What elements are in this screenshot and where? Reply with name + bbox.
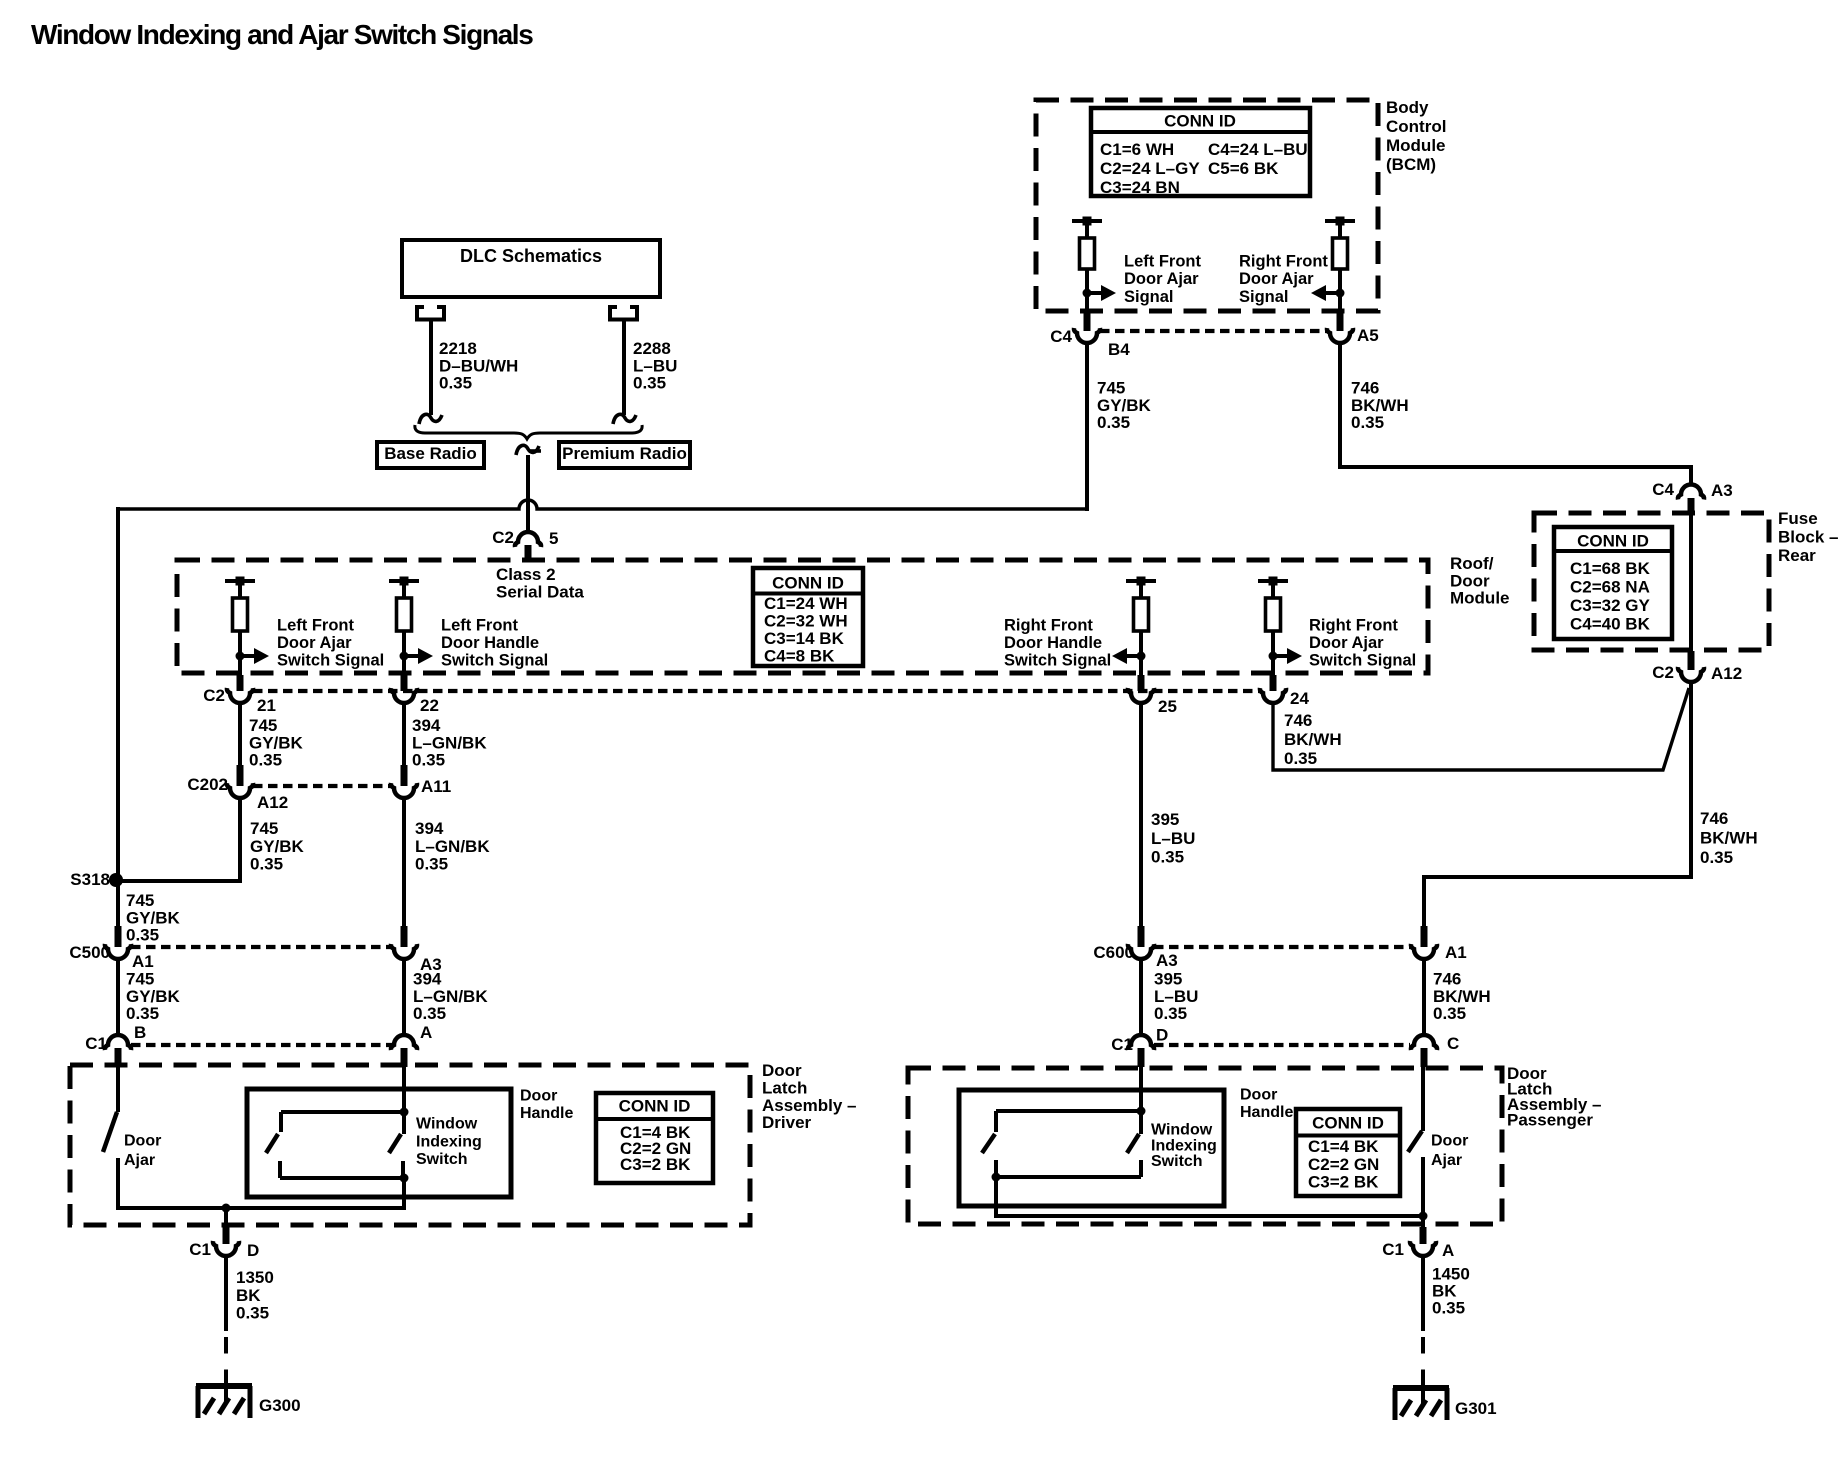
- junction dot bottom (driver): [400, 1174, 409, 1183]
- svg-text:24: 24: [1290, 689, 1309, 708]
- CONN ID table (passenger latch): [1296, 1109, 1400, 1196]
- pin stub A12 fuse: [1688, 651, 1695, 670]
- Premium Radio box: [559, 442, 690, 468]
- connector cup C1 pin D (passenger): [1128, 1035, 1154, 1050]
- connector bracket right under DLC: [608, 305, 639, 320]
- pin stub A3 (C500 line): [401, 926, 408, 947]
- wire 745 GY/BK B4 down to main horizontal: [1085, 343, 1089, 511]
- DLC Schematics box: [402, 240, 660, 297]
- svg-text:C2=2 GN: C2=2 GN: [1308, 1155, 1379, 1174]
- svg-text:D: D: [1156, 1026, 1168, 1045]
- svg-text:C4=8 BK: C4=8 BK: [764, 646, 835, 665]
- window indexing switch (driver): [266, 1067, 409, 1210]
- door ajar switch upper terminal (passenger): [1421, 1067, 1425, 1131]
- pin stub A5: [1337, 311, 1344, 331]
- switch output drop (passenger): [994, 1177, 998, 1216]
- svg-text:Base Radio: Base Radio: [384, 444, 477, 463]
- window indexing switch (passenger): [982, 1067, 1146, 1216]
- connector C202 dashed line: [253, 784, 392, 788]
- right front door ajar switch signal branch (resistor): [1258, 577, 1302, 676]
- latch bottom wire (driver): [116, 1206, 406, 1210]
- svg-text:D: D: [247, 1241, 259, 1260]
- pin stub D: [1138, 1048, 1145, 1067]
- connector cup C1 pin D (bottom driver): [213, 1241, 239, 1256]
- pin stub 25: [1138, 675, 1145, 691]
- svg-text:CONN ID: CONN ID: [1312, 1114, 1384, 1133]
- connector cup C4 pin B4: [1074, 328, 1100, 343]
- right pole lower stub (driver): [401, 1161, 405, 1178]
- door ajar switch (driver): [103, 1067, 118, 1210]
- svg-text:A3: A3: [1711, 481, 1733, 500]
- pin stub B: [115, 1048, 122, 1067]
- connector cup C202 pin A12: [227, 783, 253, 798]
- wire 745 GY/BK A1 to B: [116, 959, 120, 1036]
- connector cup pin 24: [1260, 688, 1286, 703]
- connector C2 pin 5 (roof/door module): [515, 532, 541, 547]
- pin stub D (bottom driver): [223, 1227, 230, 1244]
- splice S318 junction: [109, 873, 123, 887]
- left front door ajar signal branch (BCM resistor): [1072, 217, 1116, 313]
- svg-text:C202: C202: [187, 775, 228, 794]
- connector cup C500 pin A1: [105, 944, 131, 959]
- wire 394 L-GN/BK A11 to A3: [402, 798, 406, 928]
- pin stub C2-5: [525, 545, 532, 561]
- svg-text:C2=68 NA: C2=68 NA: [1570, 578, 1650, 597]
- svg-text:A5: A5: [1357, 326, 1379, 345]
- door ajar switch blade (driver): [103, 1112, 117, 1152]
- pin stub A12 (C202): [237, 765, 244, 786]
- svg-text:C3=32 GY: C3=32 GY: [1570, 596, 1651, 615]
- left pole blade (passenger): [982, 1134, 995, 1153]
- wire 395 L-BU A3 to D: [1139, 959, 1143, 1036]
- svg-text:B: B: [134, 1023, 146, 1042]
- wire through fuse block: [1689, 513, 1693, 653]
- svg-text:C2: C2: [492, 528, 514, 547]
- connector cup C4 pin A5: [1327, 328, 1353, 343]
- svg-text:C600: C600: [1093, 943, 1134, 962]
- pin stub A3 fuse: [1688, 498, 1695, 514]
- wire 1450 BK: [1421, 1256, 1425, 1331]
- svg-text:A1: A1: [1445, 943, 1467, 962]
- connector C500 dashed line: [131, 945, 392, 949]
- right front door ajar signal branch (BCM resistor): [1311, 217, 1355, 313]
- wire 746 BK/WH A1 to C: [1422, 959, 1426, 1036]
- connector cup pin 22: [391, 688, 417, 703]
- CONN ID table (BCM): [1091, 108, 1310, 197]
- connector cup C2 pin A12 (fuse block): [1678, 667, 1704, 682]
- wire S318 branch horizontal: [116, 879, 242, 883]
- door ajar switch upper terminal (driver): [116, 1067, 120, 1112]
- pin stub A1 (C500): [115, 926, 122, 947]
- switch top bar (passenger): [996, 1109, 1141, 1113]
- junction dot latch output (driver): [222, 1204, 231, 1213]
- Roof/Door Module dashed box: [177, 560, 1428, 673]
- Door Latch Assembly - Driver dashed box: [70, 1065, 750, 1225]
- svg-text:5: 5: [549, 529, 558, 548]
- Door Latch Assembly - Passenger dashed box: [908, 1068, 1502, 1224]
- pin stub 22: [401, 675, 408, 691]
- svg-text:C3=2 BK: C3=2 BK: [1308, 1172, 1379, 1191]
- svg-text:C4=40 BK: C4=40 BK: [1570, 614, 1651, 633]
- ground G300: [196, 1386, 301, 1418]
- pin stub 21: [237, 675, 244, 691]
- pin stub C: [1421, 1048, 1428, 1067]
- pin stub A1 (passenger): [1421, 926, 1428, 947]
- brace joining 2218/2288 to Class 2 serial data: [415, 425, 642, 439]
- connector cup C600 pin A3: [1128, 944, 1154, 959]
- junction dot bottom (passenger): [992, 1173, 1001, 1182]
- svg-text:G300: G300: [259, 1396, 301, 1415]
- svg-text:C1: C1: [1111, 1035, 1133, 1054]
- output wire to C1-A (passenger): [1421, 1216, 1425, 1229]
- left pole lower stub (driver): [278, 1161, 282, 1178]
- svg-text:A1: A1: [132, 952, 154, 971]
- connector cup C1 pin C (passenger): [1411, 1035, 1437, 1050]
- svg-text:B4: B4: [1108, 340, 1130, 359]
- connector C1 dashed line (driver latch): [131, 1043, 392, 1047]
- svg-text:C2: C2: [1652, 663, 1674, 682]
- pin stub A (bottom passenger): [1420, 1227, 1427, 1244]
- pin stub A11 (C202): [401, 765, 408, 786]
- pin stub A: [401, 1048, 408, 1067]
- right pole lower stub (passenger): [1139, 1160, 1143, 1177]
- wire 395 L-BU pin 25 to C600-A3: [1139, 703, 1143, 928]
- connector C1 dashed line (passenger latch): [1154, 1043, 1410, 1047]
- svg-text:C4: C4: [1050, 327, 1072, 346]
- switch output drop (driver): [402, 1178, 406, 1210]
- svg-text:CONN ID: CONN ID: [1164, 112, 1236, 131]
- switch feed wire (driver): [402, 1067, 406, 1134]
- svg-text:25: 25: [1158, 697, 1177, 716]
- svg-text:C500: C500: [69, 943, 110, 962]
- connector cup pin 21: [227, 688, 253, 703]
- svg-text:C3=2 BK: C3=2 BK: [620, 1155, 691, 1174]
- wire 745 GY/BK pin21 to C202-A12: [238, 703, 242, 766]
- svg-text:DLC Schematics: DLC Schematics: [460, 246, 602, 266]
- svg-text:A: A: [1442, 1241, 1454, 1260]
- svg-text:A: A: [420, 1023, 432, 1042]
- svg-text:G301: G301: [1455, 1399, 1497, 1418]
- door ajar switch (passenger): [1408, 1067, 1423, 1218]
- svg-text:A11: A11: [421, 777, 451, 796]
- switch feed wire (passenger): [1139, 1067, 1143, 1134]
- latch bottom wire (passenger): [994, 1214, 1425, 1218]
- connector cup C1 pin A (bottom passenger): [1410, 1241, 1436, 1256]
- connector C2 dashed line (roof/door module bottom): [253, 689, 1260, 693]
- right pole blade (passenger): [1127, 1134, 1139, 1153]
- svg-text:C: C: [1447, 1034, 1459, 1053]
- svg-text:21: 21: [257, 696, 276, 715]
- svg-text:C1: C1: [85, 1034, 107, 1053]
- door ajar switch lower terminal (passenger): [1421, 1157, 1425, 1218]
- wire 745 GY/BK left column vertical: [116, 507, 120, 928]
- connector cup C1 pin A (driver latch): [391, 1035, 417, 1050]
- wire 2288 L-BU vertical: [622, 321, 626, 415]
- svg-text:C2=32 WH: C2=32 WH: [764, 612, 848, 631]
- connector bracket left under DLC: [415, 305, 446, 320]
- wire 394 L-GN/BK A3 to A: [402, 959, 406, 1036]
- dashed wire to G301: [1421, 1337, 1425, 1388]
- dashed wire to G300: [224, 1337, 228, 1386]
- svg-text:A12: A12: [1711, 664, 1742, 683]
- Fuse Block - Rear dashed box: [1534, 513, 1769, 650]
- svg-text:S318: S318: [70, 870, 110, 889]
- ground G301: [1393, 1388, 1497, 1420]
- Base Radio box: [377, 442, 484, 468]
- left pole upper stub (passenger): [994, 1111, 998, 1132]
- svg-text:C4: C4: [1652, 480, 1674, 499]
- connector cup C4 pin A3 (fuse block): [1678, 485, 1704, 500]
- svg-text:CONN ID: CONN ID: [1577, 532, 1649, 551]
- connector cup pin A1 (passenger): [1411, 944, 1437, 959]
- pin stub 24: [1270, 675, 1277, 691]
- left pole upper stub (driver): [279, 1112, 283, 1132]
- left front door ajar switch signal branch (resistor): [225, 577, 269, 676]
- wire 746 BK/WH from fuse A12 down to passenger door latch: [1424, 682, 1691, 928]
- splice squiggle below brace: [516, 445, 539, 455]
- switch bottom bar (passenger): [996, 1175, 1141, 1179]
- left pole blade (driver): [266, 1134, 278, 1153]
- pin stub A3 (C600): [1138, 926, 1145, 947]
- right pole blade (driver): [389, 1134, 401, 1153]
- CONN ID table (roof/door module): [753, 568, 863, 666]
- wire 746 BK/WH from pin 24 to fuse block A12 (with slant): [1273, 688, 1689, 770]
- door ajar switch lower terminal (driver): [116, 1158, 120, 1210]
- output wire to C1-D (driver): [224, 1208, 228, 1229]
- connector cup pin A3 (driver): [391, 944, 417, 959]
- window indexing switch box (passenger): [959, 1090, 1224, 1206]
- wire 1350 BK: [224, 1256, 228, 1331]
- junction dot latch output (passenger): [1419, 1212, 1428, 1221]
- svg-text:C1=4 BK: C1=4 BK: [1308, 1137, 1379, 1156]
- left pole lower stub (passenger): [994, 1160, 998, 1177]
- Body Control Module dashed box: [1036, 100, 1378, 311]
- right front door handle switch signal branch (resistor): [1112, 577, 1156, 676]
- left front door handle switch signal branch (resistor): [389, 577, 433, 676]
- svg-text:22: 22: [420, 696, 439, 715]
- wire-end squiggle left: [419, 414, 442, 424]
- junction dot feed (driver): [400, 1108, 409, 1117]
- svg-text:C1: C1: [189, 1240, 211, 1259]
- main horizontal wire 745 from BCM B4 to left column (hop over class 2 wire): [118, 500, 1087, 509]
- connector C600 dashed line: [1154, 945, 1411, 949]
- window indexing switch box (driver): [247, 1089, 511, 1197]
- connector cup C202 pin A11: [391, 783, 417, 798]
- class 2 serial data vertical wire: [526, 455, 530, 533]
- connector cup pin 25: [1128, 688, 1154, 703]
- wire-end squiggle right: [613, 414, 636, 424]
- door ajar switch blade (passenger): [1408, 1131, 1422, 1152]
- wire 746 BK/WH from A5 to fuse block A3: [1340, 343, 1691, 486]
- svg-text:A3: A3: [1156, 951, 1178, 970]
- switch bottom bar (driver): [280, 1176, 404, 1180]
- svg-text:C1=68 BK: C1=68 BK: [1570, 559, 1651, 578]
- svg-text:Window Indexing and Ajar Switc: Window Indexing and Ajar Switch Signals: [31, 19, 533, 50]
- pin stub B4: [1084, 311, 1091, 331]
- svg-text:Premium Radio: Premium Radio: [562, 444, 687, 463]
- BCM bottom connector dashed line: [1100, 329, 1328, 333]
- svg-text:C3=14 BK: C3=14 BK: [764, 629, 845, 648]
- wire 394 L-GN/BK pin22 to C202-A11: [402, 703, 406, 766]
- CONN ID table (driver latch): [596, 1093, 713, 1183]
- svg-text:CONN ID: CONN ID: [619, 1097, 691, 1116]
- svg-text:C1=24 WH: C1=24 WH: [764, 594, 848, 613]
- junction dot feed (passenger): [1137, 1107, 1146, 1116]
- connector cup C1 pin B: [105, 1035, 131, 1050]
- wire 2218 D-BU/WH vertical: [429, 321, 433, 415]
- svg-text:C2: C2: [203, 686, 225, 705]
- CONN ID table (fuse block): [1554, 527, 1672, 639]
- svg-text:A12: A12: [257, 793, 288, 812]
- svg-text:CONN ID: CONN ID: [772, 574, 844, 593]
- wire 745 GY/BK A12 to S318: [238, 798, 242, 881]
- svg-text:C1: C1: [1382, 1240, 1404, 1259]
- switch top bar (driver): [281, 1110, 404, 1114]
